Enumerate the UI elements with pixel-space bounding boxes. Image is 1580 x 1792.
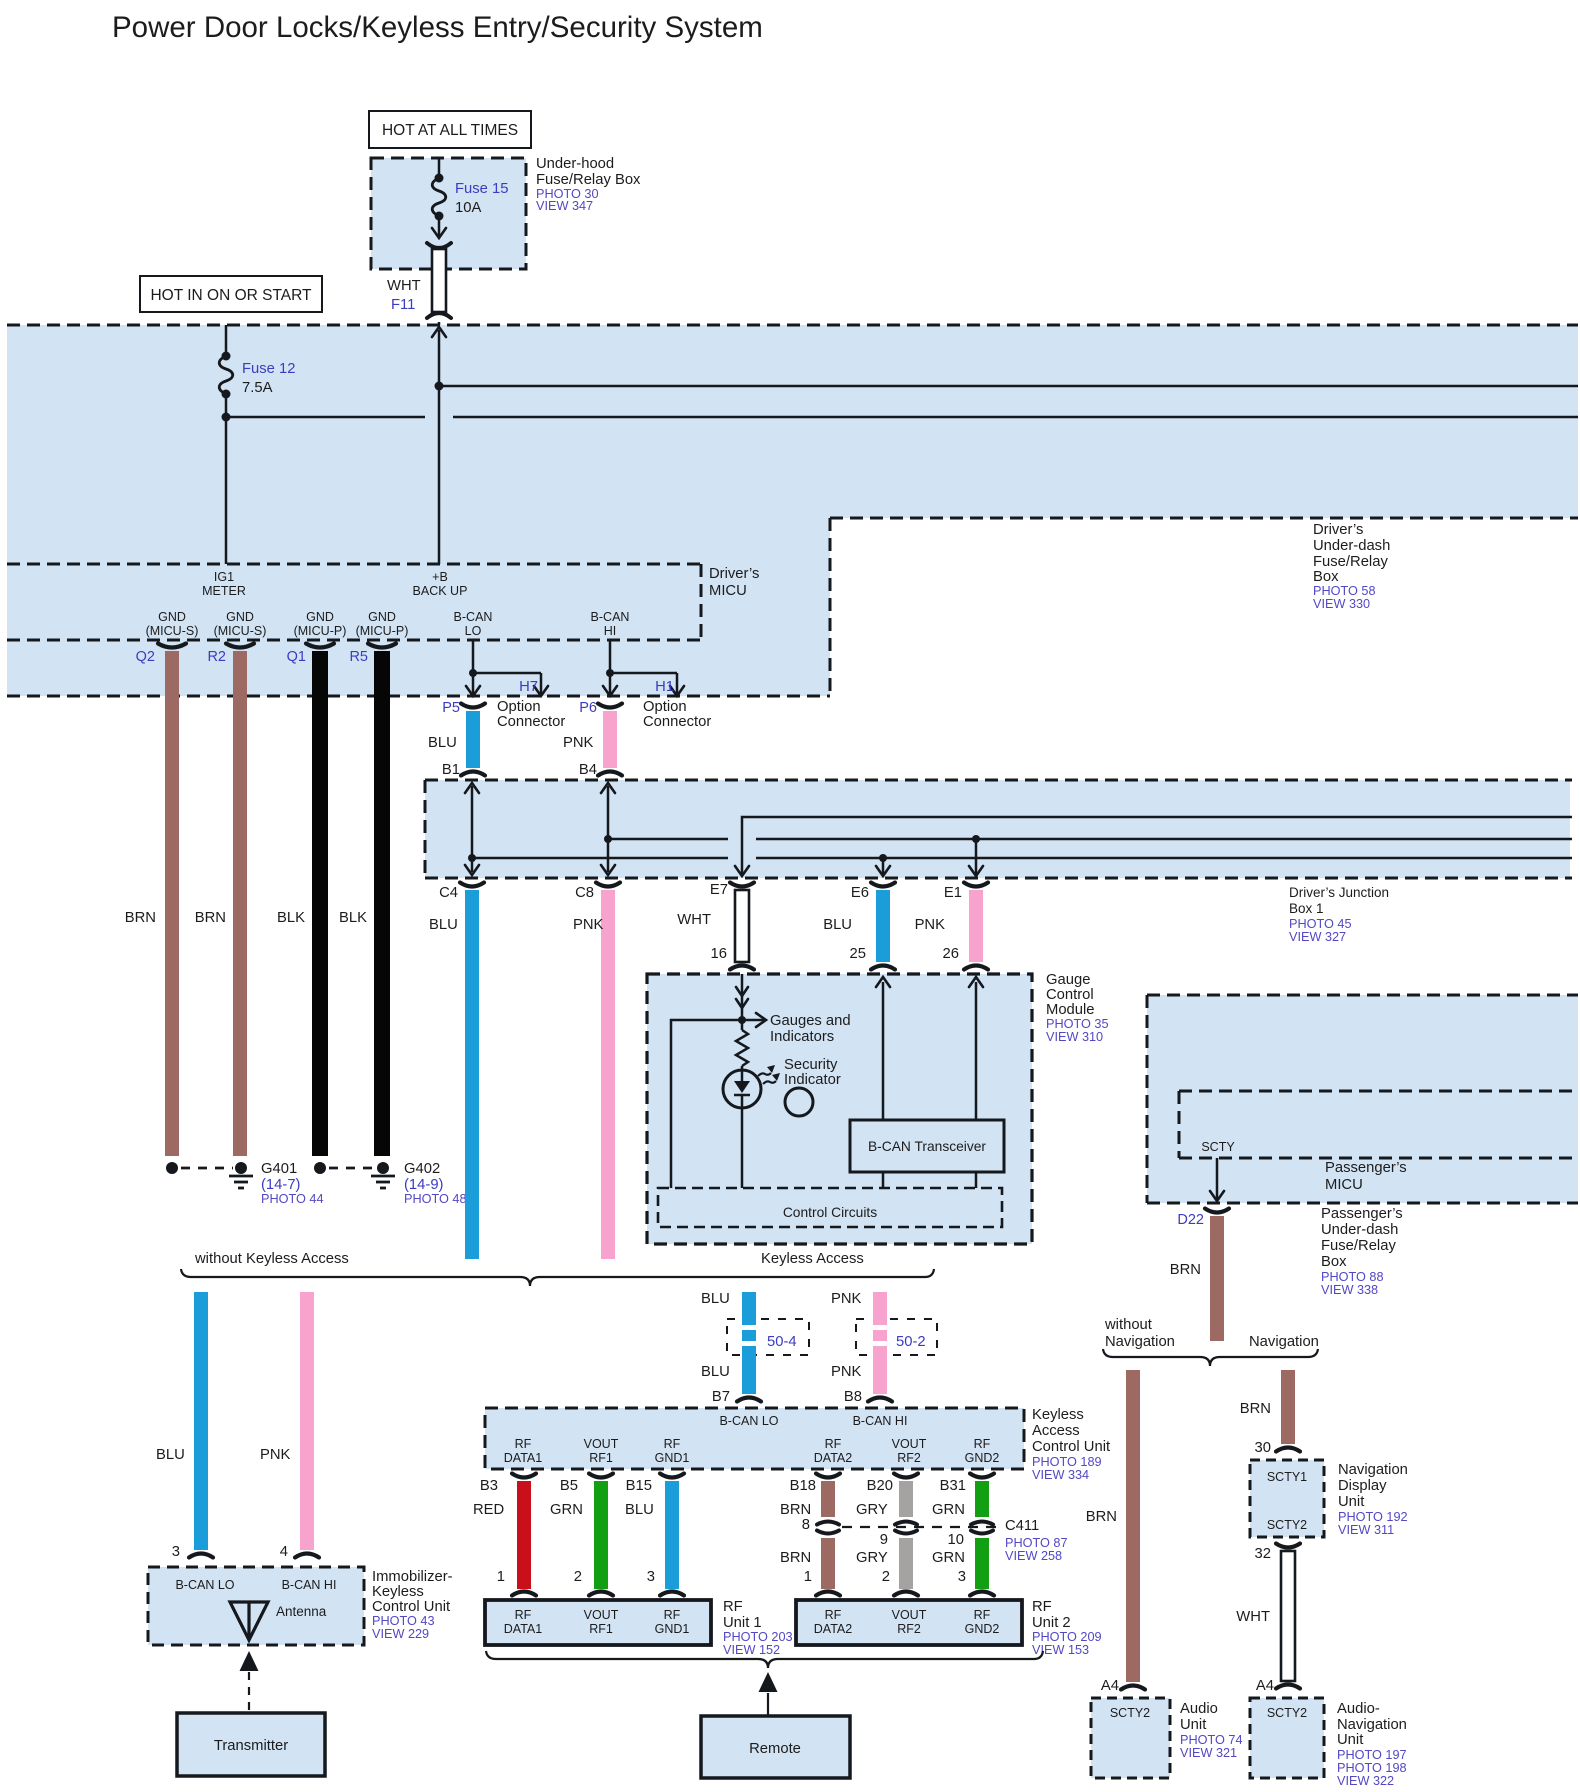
wire BLU (B15) pin 3 [665, 1481, 679, 1589]
svg-text:Unit 2: Unit 2 [1032, 1615, 1071, 1631]
audio unit box [1091, 1698, 1170, 1778]
svg-text:Option: Option [497, 699, 541, 715]
svg-text:B-CAN HI: B-CAN HI [853, 1414, 908, 1428]
svg-text:BRN: BRN [125, 910, 156, 926]
svg-text:8: 8 [802, 1517, 810, 1533]
svg-text:Passenger’s: Passenger’s [1325, 1160, 1407, 1176]
svg-text:+B: +B [432, 570, 448, 584]
antenna symbol [230, 1602, 268, 1640]
svg-text:LO: LO [465, 624, 482, 638]
connector E6 [871, 883, 895, 887]
svg-text:GRY: GRY [856, 1502, 888, 1518]
svg-text:B-CAN Transceiver: B-CAN Transceiver [868, 1139, 986, 1154]
keyless access control unit box [485, 1408, 1024, 1469]
svg-text:Control Circuits: Control Circuits [783, 1205, 877, 1220]
svg-text:MICU: MICU [709, 583, 747, 599]
connector Q2 [158, 644, 186, 648]
svg-text:PHOTO 198: PHOTO 198 [1337, 1761, 1407, 1775]
svg-text:C4: C4 [439, 885, 458, 901]
svg-text:P5: P5 [442, 700, 460, 716]
security indicator lamp [785, 1088, 813, 1116]
svg-text:Under-hood: Under-hood [536, 156, 614, 172]
svg-text:Under-dash: Under-dash [1321, 1222, 1398, 1238]
svg-text:Fuse 15: Fuse 15 [455, 181, 508, 197]
junction bus wire A (E7) [742, 817, 1572, 874]
wire PNK (P6-B4) [603, 711, 617, 768]
svg-text:METER: METER [202, 584, 246, 598]
wire GRY (B20) upper [899, 1481, 913, 1517]
svg-text:4: 4 [280, 1544, 288, 1560]
svg-text:25: 25 [850, 946, 866, 962]
svg-text:BLU: BLU [823, 917, 852, 933]
svg-text:(MICU-S): (MICU-S) [146, 624, 199, 638]
svg-text:Fuse 12: Fuse 12 [242, 361, 295, 377]
svg-text:1: 1 [497, 1569, 505, 1585]
svg-text:Navigation: Navigation [1249, 1334, 1319, 1350]
svg-text:GRN: GRN [932, 1550, 965, 1566]
svg-text:GND1: GND1 [655, 1451, 690, 1465]
svg-text:Unit 1: Unit 1 [723, 1615, 762, 1631]
svg-text:GND1: GND1 [655, 1622, 690, 1636]
transceiver to control circuits wires [882, 1172, 885, 1188]
svg-text:Indicators: Indicators [770, 1029, 834, 1045]
svg-text:RF2: RF2 [897, 1451, 921, 1465]
svg-text:Immobilizer-: Immobilizer- [372, 1569, 453, 1585]
rf unit 2 box [796, 1600, 1022, 1645]
svg-text:Indicator: Indicator [784, 1072, 841, 1088]
svg-text:BLU: BLU [625, 1502, 654, 1518]
svg-text:WHT: WHT [387, 278, 421, 294]
svg-text:VOUT: VOUT [584, 1608, 619, 1622]
B-CAN LO branch wire [472, 640, 475, 673]
svg-text:Gauge: Gauge [1046, 972, 1090, 988]
bus wire lower [226, 416, 425, 419]
svg-text:RF: RF [515, 1437, 532, 1451]
immobilizer-keyless control unit box [148, 1567, 364, 1645]
SCTY wire arrow [1216, 1158, 1219, 1199]
svg-text:Access: Access [1032, 1423, 1080, 1439]
svg-text:Navigation: Navigation [1338, 1462, 1408, 1478]
svg-text:Control Unit: Control Unit [1032, 1439, 1110, 1455]
svg-text:2: 2 [574, 1569, 582, 1585]
wire BLK (Q1) [312, 651, 328, 1156]
svg-text:BRN: BRN [1240, 1401, 1271, 1417]
wire PNK (C8) [601, 890, 615, 1259]
svg-text:Control Unit: Control Unit [372, 1599, 450, 1615]
svg-text:PHOTO 209: PHOTO 209 [1032, 1630, 1102, 1644]
svg-text:Keyless: Keyless [372, 1584, 424, 1600]
svg-text:PHOTO 197: PHOTO 197 [1337, 1748, 1407, 1762]
svg-text:VIEW 321: VIEW 321 [1180, 1746, 1237, 1760]
svg-text:VOUT: VOUT [892, 1437, 927, 1451]
svg-text:G402: G402 [404, 1161, 440, 1177]
svg-text:Keyless: Keyless [1032, 1407, 1084, 1423]
svg-text:(14-7): (14-7) [261, 1177, 301, 1193]
svg-text:B5: B5 [560, 1478, 578, 1494]
svg-text:Keyless Access: Keyless Access [761, 1251, 864, 1267]
svg-text:(MICU-S): (MICU-S) [214, 624, 267, 638]
gauge internal wire 16 with diode [741, 974, 744, 1030]
connector C4 [460, 883, 484, 887]
wire BRN (B18) lower pin 1 [821, 1538, 835, 1589]
gauge control module box [647, 974, 1032, 1244]
svg-text:Driver’s: Driver’s [709, 566, 759, 582]
svg-text:B-CAN: B-CAN [591, 610, 630, 624]
svg-text:GRY: GRY [856, 1550, 888, 1566]
label box HOT IN ON OR START [140, 276, 322, 312]
svg-text:GND: GND [306, 610, 334, 624]
svg-text:B1: B1 [442, 762, 460, 778]
svg-text:Q1: Q1 [287, 649, 306, 665]
wire RED (B3) pin 1 [517, 1481, 531, 1589]
svg-text:A4: A4 [1101, 1678, 1119, 1694]
svg-text:Control: Control [1046, 987, 1094, 1003]
svg-text:E1: E1 [944, 885, 962, 901]
svg-text:Antenna: Antenna [276, 1604, 327, 1619]
svg-text:D22: D22 [1177, 1212, 1204, 1228]
wire BRN (Q2) [165, 651, 179, 1156]
navigation bracket [1103, 1349, 1318, 1366]
connector B1 [461, 772, 485, 776]
svg-text:A4: A4 [1256, 1678, 1274, 1694]
b-can transceiver box [850, 1120, 1004, 1172]
svg-text:RF: RF [664, 1608, 681, 1622]
svg-text:PHOTO 58: PHOTO 58 [1313, 584, 1376, 598]
svg-text:C8: C8 [575, 885, 594, 901]
svg-text:B-CAN LO: B-CAN LO [719, 1414, 778, 1428]
svg-text:G401: G401 [261, 1161, 297, 1177]
wire PNK (E1) pin 26 [969, 890, 983, 962]
fuse 12 [225, 325, 228, 356]
svg-text:PHOTO 88: PHOTO 88 [1321, 1270, 1384, 1284]
svg-text:BRN: BRN [780, 1502, 811, 1518]
svg-text:SCTY2: SCTY2 [1110, 1706, 1150, 1720]
transmitter arrow [240, 1651, 259, 1671]
svg-text:B7: B7 [712, 1389, 730, 1405]
junction B1 through-wire [471, 786, 474, 872]
svg-text:PNK: PNK [563, 735, 594, 751]
control circuits box [658, 1188, 1002, 1227]
svg-text:(14-9): (14-9) [404, 1177, 444, 1193]
svg-text:Audio: Audio [1180, 1701, 1218, 1717]
svg-text:RF: RF [515, 1608, 532, 1622]
svg-text:Module: Module [1046, 1002, 1095, 1018]
svg-text:GND2: GND2 [965, 1622, 1000, 1636]
svg-text:3: 3 [647, 1569, 655, 1585]
svg-text:H7: H7 [519, 679, 538, 695]
svg-text:DATA1: DATA1 [504, 1451, 542, 1465]
svg-text:PHOTO 44: PHOTO 44 [261, 1192, 324, 1206]
svg-text:RF: RF [825, 1437, 842, 1451]
svg-text:3: 3 [958, 1569, 966, 1585]
junction B4 through-wire [607, 786, 610, 872]
svg-text:B8: B8 [844, 1389, 862, 1405]
svg-text:50-2: 50-2 [896, 1334, 926, 1350]
gauge left branch wire [671, 1020, 742, 1188]
connector 50-2 [856, 1319, 937, 1355]
svg-text:Connector: Connector [497, 714, 565, 730]
svg-text:(MICU-P): (MICU-P) [294, 624, 347, 638]
B-CAN HI branch wire [609, 640, 612, 673]
rf unit 1 box [485, 1600, 711, 1645]
ground G402 [314, 1162, 326, 1174]
wire PNK (immobilizer branch) pin 4 [300, 1292, 314, 1550]
audio-navigation unit box [1250, 1698, 1324, 1778]
svg-text:Fuse/Relay: Fuse/Relay [1321, 1238, 1396, 1254]
svg-text:PHOTO 45: PHOTO 45 [1289, 917, 1352, 931]
svg-text:Connector: Connector [643, 714, 711, 730]
svg-text:BLU: BLU [701, 1291, 730, 1307]
svg-text:RF1: RF1 [589, 1622, 613, 1636]
svg-text:BLU: BLU [701, 1364, 730, 1380]
svg-text:DATA2: DATA2 [814, 1451, 852, 1465]
passenger's under-dash fuse/relay box [1147, 995, 1578, 1203]
connector C8 [596, 883, 620, 887]
svg-text:Security: Security [784, 1057, 838, 1073]
svg-text:SCTY2: SCTY2 [1267, 1518, 1307, 1532]
svg-text:B20: B20 [867, 1478, 893, 1494]
svg-text:VIEW 338: VIEW 338 [1321, 1283, 1378, 1297]
svg-text:PNK: PNK [915, 917, 946, 933]
svg-text:Box: Box [1313, 569, 1339, 585]
svg-text:Power Door Locks/Keyless Entry: Power Door Locks/Keyless Entry/Security … [112, 11, 763, 44]
svg-text:PHOTO 35: PHOTO 35 [1046, 1017, 1109, 1031]
wire GRN (B5) pin 2 [594, 1481, 608, 1589]
svg-text:RF: RF [1032, 1599, 1052, 1615]
svg-text:VOUT: VOUT [892, 1608, 927, 1622]
svg-text:SCTY1: SCTY1 [1267, 1470, 1307, 1484]
svg-text:WHT: WHT [1236, 1609, 1270, 1625]
wire +B backup [432, 327, 446, 337]
svg-text:26: 26 [943, 946, 959, 962]
passenger's MICU box [1179, 1090, 1578, 1093]
svg-text:PNK: PNK [831, 1291, 862, 1307]
svg-text:BACK UP: BACK UP [413, 584, 468, 598]
driver's MICU box [7, 563, 701, 566]
svg-text:VIEW 152: VIEW 152 [723, 1643, 780, 1657]
navigation display unit box [1250, 1460, 1324, 1537]
svg-text:GND: GND [226, 610, 254, 624]
svg-text:7.5A: 7.5A [242, 380, 273, 396]
label box HOT AT ALL TIMES [369, 111, 531, 148]
svg-text:BLK: BLK [277, 910, 305, 926]
svg-text:3: 3 [172, 1544, 180, 1560]
svg-text:VIEW 334: VIEW 334 [1032, 1468, 1089, 1482]
wire PNK (B8) upper [873, 1292, 887, 1325]
svg-text:Transmitter: Transmitter [214, 1738, 288, 1754]
svg-text:VIEW 258: VIEW 258 [1005, 1549, 1062, 1563]
wire BRN (D22) [1210, 1216, 1224, 1341]
svg-text:VIEW 311: VIEW 311 [1338, 1523, 1394, 1537]
svg-text:Unit: Unit [1337, 1732, 1363, 1748]
svg-text:PNK: PNK [573, 917, 604, 933]
svg-text:C411: C411 [1005, 1518, 1039, 1534]
svg-text:without: without [1104, 1317, 1152, 1333]
svg-text:H1: H1 [655, 679, 674, 695]
bus wire upper [439, 385, 1578, 388]
transmitter box [177, 1713, 325, 1776]
svg-text:MICU: MICU [1325, 1177, 1363, 1193]
svg-text:Box 1: Box 1 [1289, 901, 1324, 916]
svg-text:BRN: BRN [1086, 1509, 1117, 1525]
svg-text:PHOTO 48: PHOTO 48 [404, 1192, 467, 1206]
svg-text:Display: Display [1338, 1478, 1387, 1494]
svg-text:B4: B4 [579, 762, 597, 778]
connector C411 link [842, 1526, 1002, 1528]
svg-text:WHT: WHT [677, 912, 711, 928]
svg-text:Navigation: Navigation [1337, 1717, 1407, 1733]
svg-text:Unit: Unit [1180, 1717, 1206, 1733]
svg-text:Passenger’s: Passenger’s [1321, 1206, 1403, 1222]
svg-text:HI: HI [604, 624, 617, 638]
svg-text:BLU: BLU [156, 1447, 185, 1463]
svg-text:B-CAN LO: B-CAN LO [175, 1578, 234, 1592]
svg-text:Option: Option [643, 699, 687, 715]
wire BLU (B7) upper [742, 1292, 756, 1325]
wire BLU (immobilizer branch) pin 3 [194, 1292, 208, 1550]
wire GRN (B31) upper [975, 1481, 989, 1517]
svg-text:VIEW 330: VIEW 330 [1313, 597, 1370, 611]
fuse 15 [438, 158, 441, 178]
svg-text:GRN: GRN [932, 1502, 965, 1518]
junction bus wire B (B4-E1) [608, 838, 728, 841]
svg-text:50-4: 50-4 [767, 1334, 797, 1350]
svg-text:(MICU-P): (MICU-P) [356, 624, 409, 638]
svg-text:RF2: RF2 [897, 1622, 921, 1636]
svg-text:B15: B15 [626, 1478, 652, 1494]
svg-text:Unit: Unit [1338, 1494, 1364, 1510]
svg-text:1: 1 [804, 1569, 812, 1585]
svg-text:DATA1: DATA1 [504, 1622, 542, 1636]
wire BLU (C4) [465, 890, 479, 1259]
svg-text:Driver’s: Driver’s [1313, 522, 1363, 538]
svg-text:E7: E7 [710, 882, 728, 898]
svg-text:HOT AT ALL TIMES: HOT AT ALL TIMES [382, 122, 518, 139]
wire GRN (B31) lower pin 3 [975, 1538, 989, 1589]
svg-text:RF: RF [664, 1437, 681, 1451]
svg-text:B31: B31 [940, 1478, 966, 1494]
svg-text:BRN: BRN [195, 910, 226, 926]
wire F11 to under-dash box [438, 322, 441, 340]
svg-text:VIEW 347: VIEW 347 [536, 199, 593, 213]
rf units bracket [486, 1651, 1043, 1668]
wire BRN (R2) [233, 651, 247, 1156]
wire WHT (32-A4) [1281, 1551, 1295, 1681]
wire BLU (B7) lower [742, 1346, 756, 1394]
svg-text:VIEW 327: VIEW 327 [1289, 930, 1346, 944]
svg-text:E6: E6 [851, 885, 869, 901]
svg-text:PHOTO 192: PHOTO 192 [1338, 1510, 1408, 1524]
svg-text:Q2: Q2 [136, 649, 155, 665]
svg-text:10: 10 [948, 1532, 964, 1548]
svg-text:BRN: BRN [1170, 1262, 1201, 1278]
gauge internal wire 25 [882, 982, 885, 1120]
svg-text:VIEW 229: VIEW 229 [372, 1627, 429, 1641]
svg-text:SCTY: SCTY [1201, 1140, 1235, 1154]
svg-text:2: 2 [882, 1569, 890, 1585]
LED light rays [758, 1073, 771, 1076]
security indicator LED [723, 1070, 761, 1108]
svg-text:PHOTO 189: PHOTO 189 [1032, 1455, 1102, 1469]
svg-text:R5: R5 [349, 649, 368, 665]
svg-text:Audio-: Audio- [1337, 1701, 1380, 1717]
svg-text:IG1: IG1 [214, 570, 234, 584]
svg-text:GND: GND [158, 610, 186, 624]
resistor [736, 1030, 748, 1066]
svg-text:VIEW 310: VIEW 310 [1046, 1030, 1103, 1044]
svg-text:9: 9 [880, 1532, 888, 1548]
svg-text:Navigation: Navigation [1105, 1334, 1175, 1350]
svg-text:PNK: PNK [831, 1364, 862, 1380]
svg-text:PHOTO 203: PHOTO 203 [723, 1630, 793, 1644]
svg-text:F11: F11 [391, 297, 415, 313]
svg-text:BLU: BLU [428, 735, 457, 751]
svg-text:BRN: BRN [780, 1550, 811, 1566]
svg-text:RF: RF [825, 1608, 842, 1622]
svg-text:RF1: RF1 [589, 1451, 613, 1465]
svg-text:PHOTO 43: PHOTO 43 [372, 1614, 435, 1628]
svg-text:PNK: PNK [260, 1447, 291, 1463]
svg-text:B-CAN HI: B-CAN HI [282, 1578, 337, 1592]
svg-text:B-CAN: B-CAN [454, 610, 493, 624]
wire BLU (E6) pin 25 [876, 890, 890, 962]
svg-text:Under-dash: Under-dash [1313, 538, 1390, 554]
wire GRY (B20) lower pin 2 [899, 1538, 913, 1589]
svg-text:RF: RF [974, 1437, 991, 1451]
connector Q1 [306, 644, 334, 648]
svg-text:HOT IN ON OR START: HOT IN ON OR START [150, 287, 312, 304]
svg-text:32: 32 [1255, 1546, 1271, 1562]
connector R2 [226, 644, 254, 648]
connector F11 (WHT wire) [432, 249, 446, 312]
connector B4 [598, 772, 622, 776]
keyless access bracket [181, 1269, 934, 1286]
wire WHT (E7) pin 16 [735, 890, 749, 962]
svg-text:16: 16 [711, 946, 727, 962]
wire BLK (R5) [374, 651, 390, 1156]
connector E7 [730, 883, 754, 887]
gauge wire LED to control circuits [741, 1108, 744, 1188]
remote arrow [759, 1672, 778, 1692]
wire PNK (B8) lower [873, 1346, 887, 1394]
svg-text:R2: R2 [207, 649, 226, 665]
svg-text:Box: Box [1321, 1254, 1347, 1270]
svg-text:BLK: BLK [339, 910, 367, 926]
svg-text:Fuse/Relay: Fuse/Relay [1313, 554, 1388, 570]
svg-text:30: 30 [1255, 1440, 1271, 1456]
svg-text:P6: P6 [579, 700, 597, 716]
svg-text:VIEW 322: VIEW 322 [1337, 1774, 1394, 1788]
svg-text:Gauges and: Gauges and [770, 1013, 851, 1029]
svg-text:RF: RF [723, 1599, 743, 1615]
svg-text:Driver’s Junction: Driver’s Junction [1289, 885, 1389, 900]
under-hood fuse/relay box [371, 158, 526, 269]
svg-text:without Keyless Access: without Keyless Access [194, 1251, 349, 1267]
svg-text:RED: RED [473, 1502, 504, 1518]
gauge internal wire 26 [975, 982, 978, 1120]
junction bus wire C (B1-E6) [472, 857, 728, 860]
svg-text:PHOTO 87: PHOTO 87 [1005, 1536, 1068, 1550]
wire BLU (P5-B1) [466, 711, 480, 768]
ground G401 [166, 1162, 178, 1174]
svg-text:GND: GND [368, 610, 396, 624]
wire BRN (nav branch) [1281, 1370, 1295, 1444]
svg-text:Fuse/Relay Box: Fuse/Relay Box [536, 172, 641, 188]
svg-text:Remote: Remote [749, 1741, 801, 1757]
svg-text:GRN: GRN [550, 1502, 583, 1518]
svg-text:10A: 10A [455, 200, 481, 216]
svg-text:BLU: BLU [429, 917, 458, 933]
